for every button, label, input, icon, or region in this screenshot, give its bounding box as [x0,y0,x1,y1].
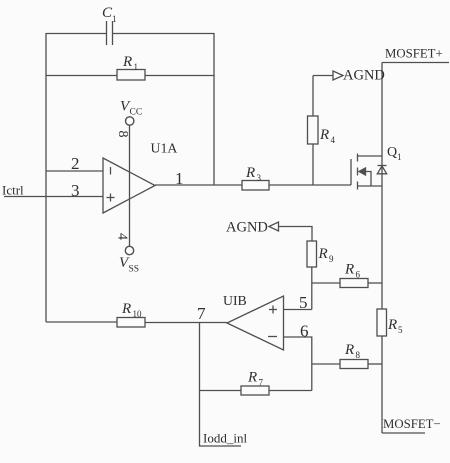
svg-text:1: 1 [112,14,117,24]
svg-text:8: 8 [115,131,130,138]
resistor R6 [340,279,368,288]
svg-text:MOSFET+: MOSFET+ [385,47,443,61]
wire middle AGND to R9 [279,227,313,242]
resistor R1 [117,70,145,81]
svg-text:8: 8 [356,350,361,360]
wire R4 bottom vertical [312,144,314,185]
svg-text:R: R [121,301,131,317]
resistor R5 [377,309,387,336]
svg-text:MOSFET−: MOSFET− [383,417,441,431]
wire R7 row left [200,390,242,392]
wire left rail [45,33,47,322]
wire Q1 drain [358,155,383,157]
wire top from capacitor to right rail [113,33,215,35]
svg-text:U1A: U1A [151,141,178,156]
label Q1 [387,145,402,162]
wire right rail upper [381,63,383,310]
label R9 [318,246,335,264]
svg-text:1: 1 [175,169,184,188]
wire Q1 gate bar [350,159,352,185]
op-amp U1B [227,296,284,350]
svg-text:9: 9 [329,254,334,264]
svg-text:R: R [122,54,132,70]
svg-text:7: 7 [197,304,206,323]
Q1 body arrow [359,168,371,186]
svg-text:R: R [319,127,329,143]
resistor R8 [340,360,368,369]
middle AGND arrow [269,222,279,231]
label VSS [119,255,139,275]
wire R3 to Q1 gate [269,184,351,186]
resistor R7 [241,386,269,395]
wire R8 row left [312,363,340,365]
wire VCC to VSS supply line through U1A [129,126,131,247]
U1A inverting input mark [110,167,112,175]
U1B non-inverting input mark [269,306,277,314]
svg-text:Q: Q [387,145,397,160]
wire Iodd_inl vertical [200,323,242,447]
svg-text:CC: CC [130,108,143,118]
wire R1 row right [145,75,214,77]
wire R9 to pin5 node [311,267,313,310]
svg-text:2: 2 [71,154,80,173]
wire R6 to right rail [368,282,382,284]
svg-text:5: 5 [398,325,403,335]
svg-text:4: 4 [114,233,129,240]
resistor R3 [242,181,269,191]
svg-text:R: R [247,370,257,386]
wire R7 to pin6 vertical [269,390,312,392]
svg-text:4: 4 [331,135,336,145]
wire R6 row left [312,282,340,284]
wire R4 top vertical [312,76,314,117]
wire R10 to U1B output [145,322,227,324]
label R1 [122,54,138,72]
svg-text:R: R [344,262,354,278]
svg-text:AGND: AGND [343,68,385,84]
svg-text:R: R [387,317,397,333]
wire Q1 source [358,185,383,187]
svg-text:R: R [344,342,354,358]
resistor R9 [307,241,317,267]
transistor Q1 channel bars [357,154,359,190]
wire R8 to right rail [368,363,382,365]
svg-text:1: 1 [134,62,139,72]
svg-text:10: 10 [133,309,143,319]
wire pin5 to U1B [284,309,312,311]
resistor R4 [308,116,319,144]
top AGND arrow [333,71,343,80]
wire pin7 row left [46,321,117,323]
label R8 [344,342,361,360]
svg-text:SS: SS [129,265,140,275]
wire Ictrl input [4,196,103,198]
svg-text:3: 3 [71,181,80,200]
svg-text:Iodd_inl: Iodd_inl [203,431,247,446]
wire top from left rail to capacitor [46,33,107,35]
label R3 [245,165,262,183]
wire MOSFET+ terminal line [382,62,449,64]
wire R1 row left [46,75,117,77]
resistor R10 [117,318,145,328]
label R4 [319,127,336,145]
Q1 body diode [377,166,386,174]
svg-text:UIB: UIB [223,293,247,308]
svg-text:R: R [245,165,255,181]
svg-text:AGND: AGND [226,220,268,236]
svg-text:7: 7 [259,378,264,388]
svg-text:5: 5 [299,293,308,312]
label R7 [247,370,264,388]
terminal VSS [125,246,133,254]
svg-text:1: 1 [397,152,402,162]
svg-text:3: 3 [257,173,262,183]
U1B inverting input mark [268,336,277,338]
op-amp U1A [103,158,155,213]
wire U1A output to R3 [155,184,242,186]
wire right rail lower [381,336,383,433]
label C1 [102,5,117,24]
terminal VCC [126,117,134,125]
label R10 [121,301,142,319]
U1A non-inverting input mark [107,194,115,202]
wire pin2 input [46,170,103,172]
svg-text:6: 6 [300,322,309,341]
wire pin6 to vertical [284,337,312,391]
label VCC [120,99,142,118]
svg-text:6: 6 [356,270,361,280]
capacitor C1 [107,21,113,45]
wire right rail of feedback loop [213,33,215,185]
wire MOSFET- terminal line [382,432,425,434]
label R6 [344,262,361,280]
svg-text:R: R [318,246,328,262]
wire to top AGND arrow [313,75,333,77]
label R5 [387,317,403,335]
svg-text:Ictrl: Ictrl [2,183,24,198]
